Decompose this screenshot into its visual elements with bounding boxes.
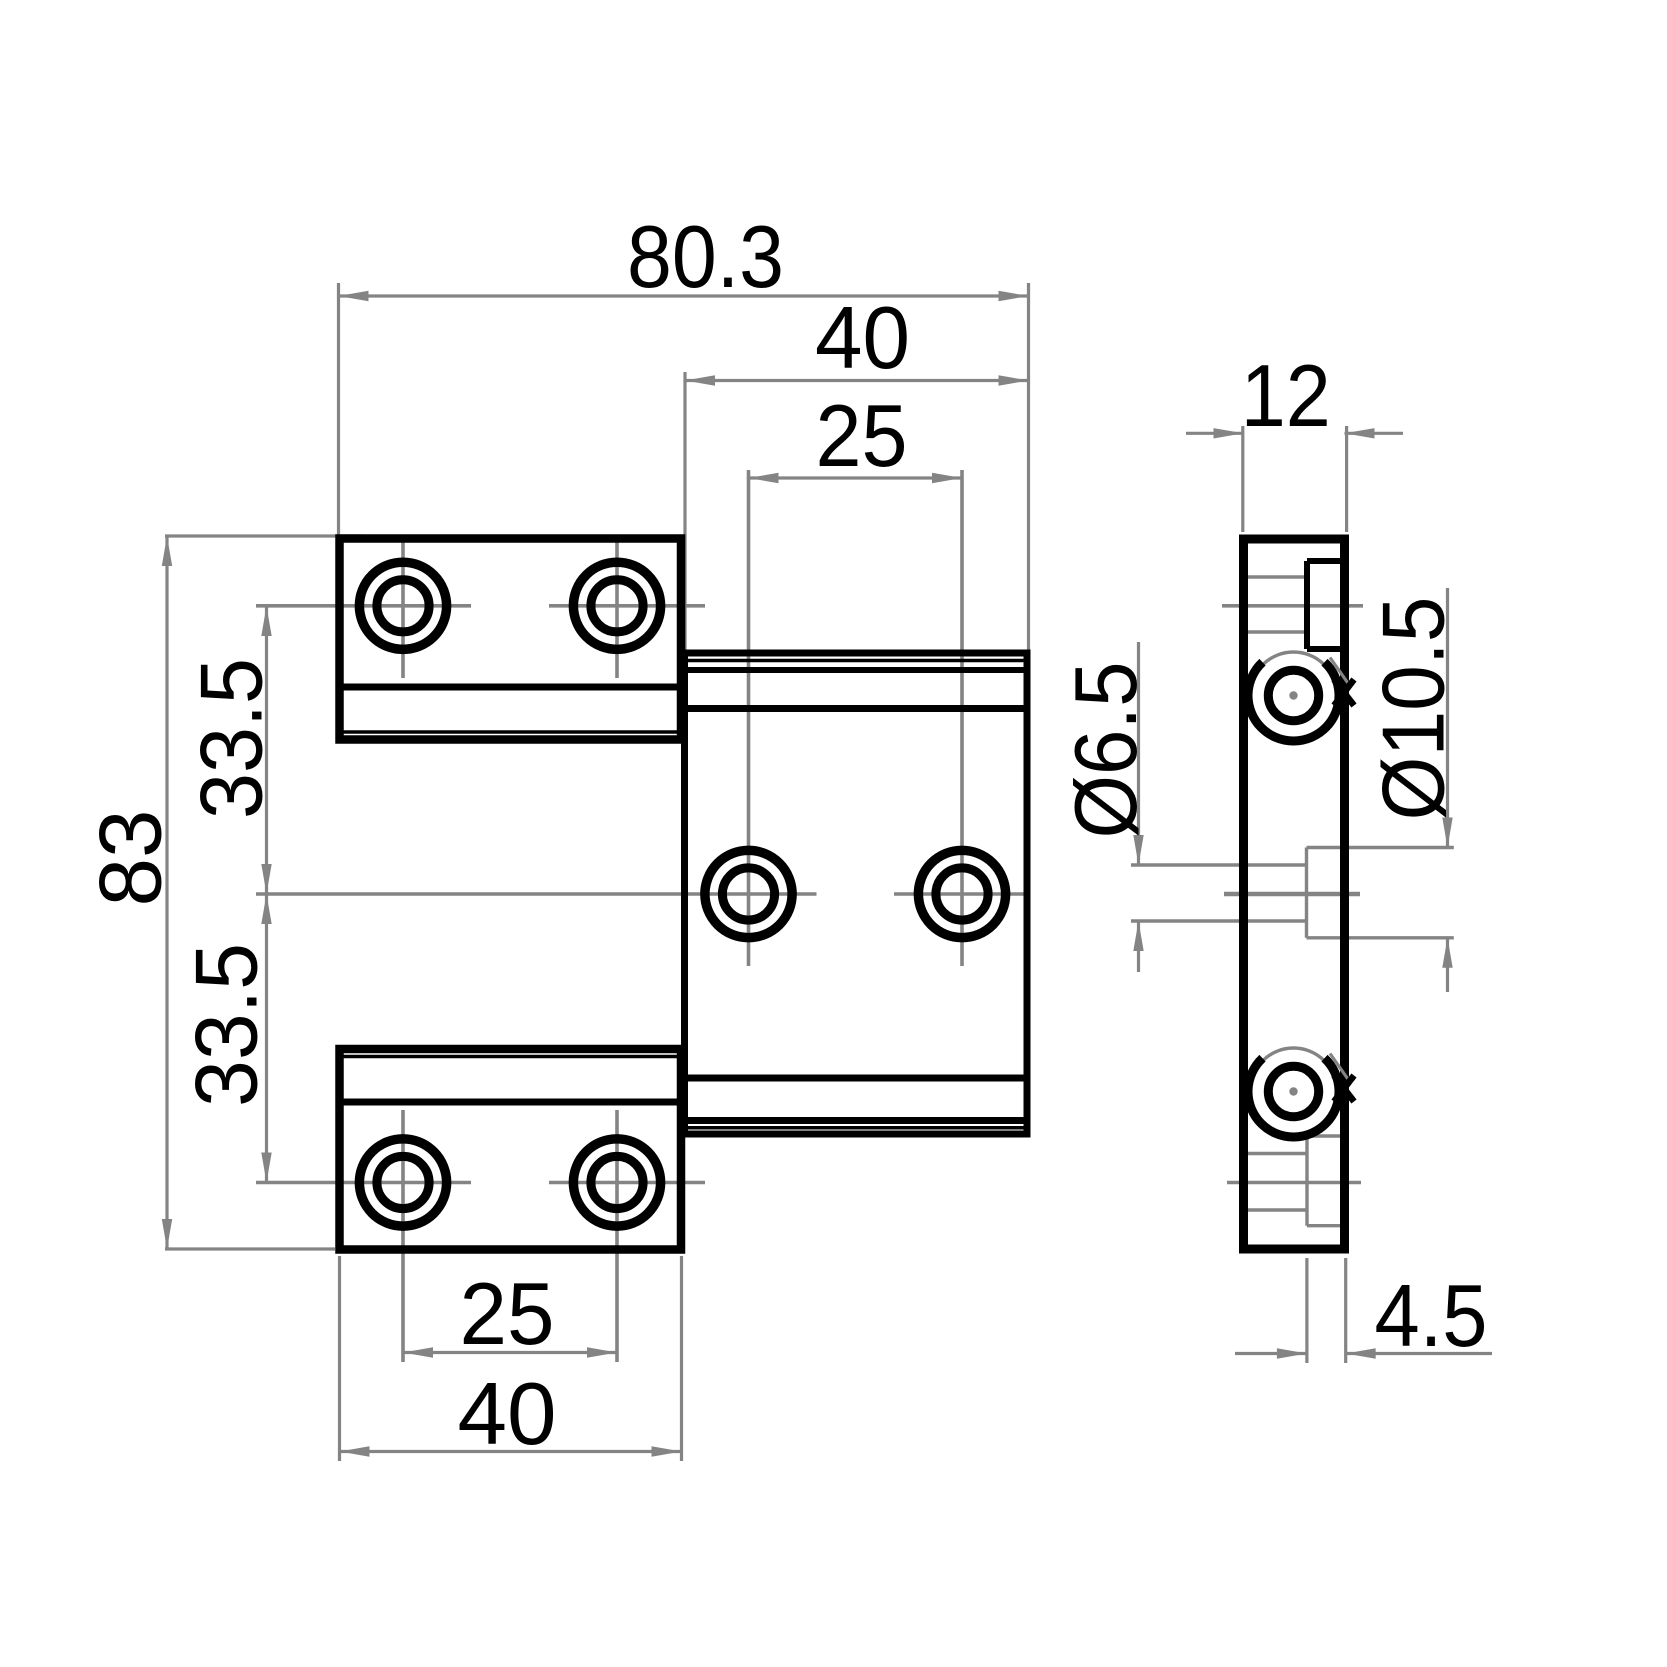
extension lines 40 bottom: [340, 1256, 682, 1461]
label 40 top: [815, 288, 910, 387]
svg-text:25: 25: [816, 386, 908, 485]
hinge pin lower: [1248, 1048, 1354, 1137]
centerline side middle hole: [1224, 892, 1360, 896]
svg-text:33.5: 33.5: [177, 943, 276, 1107]
hole C1 bottom-left: [359, 1139, 446, 1226]
dimension line dia 6.5: [1133, 642, 1143, 972]
svg-text:4.5: 4.5: [1375, 1266, 1488, 1365]
hidden lines side top hole: [1248, 577, 1307, 632]
label 33.5 upper: [182, 658, 281, 819]
centerline side top hole: [1222, 604, 1363, 608]
hole C2 bottom-right: [573, 1139, 660, 1226]
bottom hinge leaf plate: [340, 1049, 682, 1250]
hole B1 body-left: [705, 850, 792, 937]
dimension line 4.5: [1235, 1348, 1492, 1358]
centerline body holes y=894: [256, 470, 1030, 966]
dimension line 25 top: [749, 473, 963, 483]
hinge pin upper: [1248, 652, 1354, 741]
label dia 10.5: [1364, 597, 1463, 821]
label 33.5 lower: [177, 943, 276, 1107]
svg-text:25: 25: [460, 1264, 555, 1363]
label 83: [81, 810, 180, 907]
dimension line 12: [1186, 428, 1403, 438]
centerline bottom plate holes y=1182.5: [256, 1110, 705, 1362]
dimension line 40 top: [685, 375, 1029, 385]
dimension line 40 bottom: [340, 1446, 682, 1456]
dimension line dia 10.5: [1442, 588, 1452, 992]
side view body outline: [1244, 539, 1345, 1249]
hole B2 body-right: [918, 850, 1005, 937]
extension line 40 top: [683, 372, 686, 650]
svg-text:Ø6.5: Ø6.5: [1056, 662, 1155, 839]
extension lines 4.5: [1307, 1258, 1346, 1363]
hidden lines side middle hole: [1131, 865, 1307, 921]
label dia 6.5: [1056, 662, 1155, 839]
top hinge leaf plate: [340, 539, 682, 740]
dimension line 80.3: [339, 291, 1029, 301]
extension lines 12: [1243, 426, 1347, 532]
label 4.5: [1375, 1266, 1488, 1365]
dimension line 33.5 upper: [261, 606, 271, 894]
dimension line 83: [162, 536, 172, 1249]
extension lines 83: [165, 536, 362, 1249]
centerline top plate holes y=606: [256, 536, 705, 678]
svg-text:80.3: 80.3: [627, 207, 784, 306]
hidden lines side bottom hole: [1248, 1154, 1307, 1211]
label 25 bottom: [460, 1264, 555, 1363]
label 25 top: [816, 386, 908, 485]
hole A2 top-right: [573, 562, 660, 649]
svg-text:33.5: 33.5: [182, 658, 281, 819]
svg-text:83: 83: [81, 810, 180, 907]
label 40 bottom: [458, 1364, 557, 1463]
central hinge body: [685, 653, 1028, 1134]
hole A1 top-left: [359, 562, 446, 649]
dimension line 25 bottom: [403, 1347, 617, 1357]
dimension line 33.5 lower: [261, 894, 271, 1183]
label 12: [1241, 346, 1331, 445]
counterbore middle notch gray: [1307, 848, 1454, 938]
extension lines 80.3: [339, 283, 1029, 650]
label 80.3: [627, 207, 784, 306]
svg-text:Ø10.5: Ø10.5: [1364, 597, 1463, 821]
svg-text:40: 40: [458, 1364, 557, 1463]
counterbore bottom notch gray: [1307, 1136, 1345, 1226]
counterbore top notch: [1307, 561, 1345, 649]
svg-text:12: 12: [1241, 346, 1331, 445]
svg-text:40: 40: [815, 288, 910, 387]
centerline side bottom hole: [1227, 1181, 1361, 1185]
